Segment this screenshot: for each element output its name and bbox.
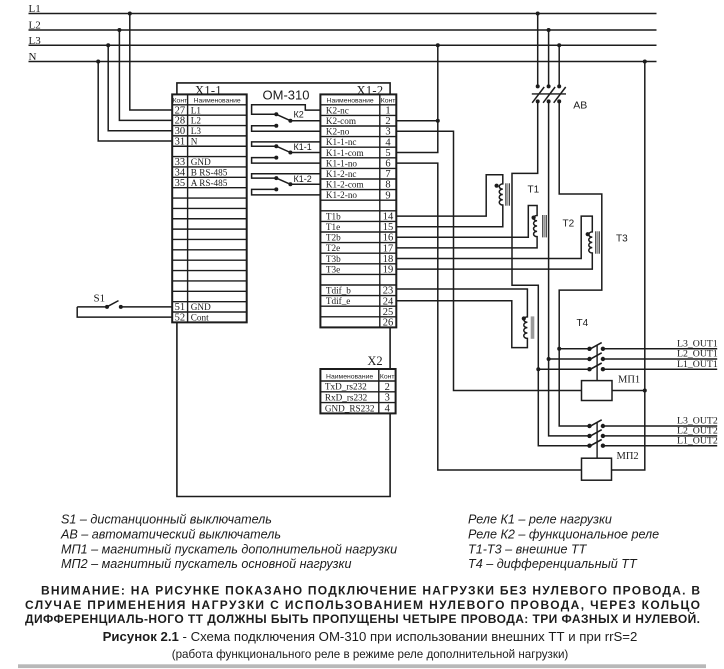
svg-text:L1_OUT2: L1_OUT2 [677,435,718,446]
svg-text:T1b: T1b [326,211,341,221]
svg-text:T3e: T3e [326,264,340,274]
svg-text:A RS-485: A RS-485 [191,178,228,188]
svg-text:TxD_rs232: TxD_rs232 [325,382,367,392]
svg-text:17: 17 [383,243,394,254]
contactor MP2 contacts [587,420,717,458]
svg-text:Рисунок 2.1 - Схема подключени: Рисунок 2.1 - Схема подключения ОМ-310 п… [103,629,638,644]
svg-text:Конт: Конт [381,97,396,104]
svg-text:7: 7 [385,169,390,180]
wire L2 rail to X1-1 [117,28,172,120]
svg-text:25: 25 [383,307,394,318]
svg-text:Т2: Т2 [563,219,575,230]
contactor coil MP2 [582,458,612,480]
svg-text:4: 4 [385,403,391,414]
svg-text:МП1: МП1 [618,374,640,385]
relay contact K1-2 [252,174,321,195]
svg-text:GND: GND [191,157,211,167]
svg-text:15: 15 [383,222,394,233]
svg-text:34: 34 [175,168,186,179]
svg-text:Реле К2 – функциональное реле: Реле К2 – функциональное реле [468,527,659,541]
wire phase L1 through breaker and CTs to contactors [512,12,590,446]
svg-text:4: 4 [385,137,391,148]
svg-text:Наименование: Наименование [326,374,373,381]
svg-text:L2: L2 [191,116,202,126]
current transformer T1 [396,175,509,227]
svg-text:X2: X2 [367,354,382,368]
svg-text:14: 14 [383,212,394,223]
svg-text:Т3: Т3 [616,234,628,245]
svg-text:GND_RS232: GND_RS232 [325,403,375,413]
svg-text:RxD_rs232: RxD_rs232 [325,393,368,403]
svg-text:8: 8 [385,180,390,191]
power rail L3 [29,35,657,47]
svg-text:K1-1-nc: K1-1-nc [326,137,357,147]
svg-text:L1: L1 [29,3,41,15]
svg-text:16: 16 [383,233,394,244]
svg-text:К2: К2 [294,109,304,119]
svg-text:2: 2 [385,116,390,127]
contactor MP1 contacts [587,343,717,381]
svg-text:S1: S1 [94,292,106,304]
svg-text:31: 31 [175,136,186,147]
svg-text:Т4 – дифференциальный ТТ: Т4 – дифференциальный ТТ [468,557,638,571]
legend text [60,513,659,572]
relay contact K2 [252,105,321,132]
svg-text:ВНИМАНИЕ: НА РИСУНКЕ ПОКАЗАНО: ВНИМАНИЕ: НА РИСУНКЕ ПОКАЗАНО ПОДКЛЮЧЕНИ… [41,584,700,598]
power rail N [29,51,657,63]
svg-text:GND: GND [191,302,211,312]
svg-text:35: 35 [175,178,186,189]
svg-text:X1-1: X1-1 [195,84,222,98]
switch S1 [77,301,172,318]
svg-text:28: 28 [175,116,186,127]
svg-text:L2: L2 [29,20,41,32]
svg-text:Конт: Конт [380,374,395,381]
warning paragraph [25,584,700,627]
svg-text:К1-1: К1-1 [294,142,312,152]
svg-text:5: 5 [385,148,390,159]
svg-text:Т4: Т4 [577,318,589,329]
relay contact K1-1 [252,142,321,163]
svg-text:K1-2-com: K1-2-com [326,180,364,190]
figure caption [103,629,638,661]
svg-text:2: 2 [385,382,390,393]
svg-text:T3b: T3b [326,254,341,264]
wire N rail to X1-1 [96,60,172,142]
svg-text:N: N [191,136,198,146]
svg-text:K2-com: K2-com [326,116,356,126]
svg-text:Наименование: Наименование [327,97,374,104]
svg-text:ДИФФЕРЕНЦИАЛЬ-НОГО ТТ ДОЛЖНЫ Б: ДИФФЕРЕНЦИАЛЬ-НОГО ТТ ДОЛЖНЫ БЫТЬ ПРОПУЩ… [25,611,700,626]
current transformer T3 [396,216,599,269]
differential current transformer T4 [396,289,534,348]
terminal block X1-1 [172,94,247,323]
svg-text:18: 18 [383,254,394,265]
svg-text:3: 3 [385,127,390,138]
svg-text:(работа функционального реле в: (работа функционального реле в режиме ре… [172,648,569,661]
svg-text:Cont: Cont [191,312,209,322]
svg-text:T2e: T2e [326,243,340,253]
terminal block X2 [320,369,395,414]
svg-text:3: 3 [385,393,390,404]
OM-310 enclosure outline [177,83,390,497]
svg-text:Т1-Т3 – внешние ТТ: Т1-Т3 – внешние ТТ [468,542,588,556]
svg-text:1: 1 [385,106,390,117]
svg-text:K1-1-com: K1-1-com [326,148,364,158]
svg-text:51: 51 [175,302,186,313]
svg-text:Наименование: Наименование [194,97,241,104]
svg-text:N: N [29,51,37,63]
svg-text:X1-2: X1-2 [357,84,384,98]
svg-text:МП1 – магнитный пускатель допо: МП1 – магнитный пускатель дополнительной… [61,542,397,556]
svg-text:S1 – дистанционный выключатель: S1 – дистанционный выключатель [61,513,272,527]
wire L3 rail to X1-1 [106,43,172,130]
svg-text:23: 23 [383,286,394,297]
svg-text:9: 9 [385,190,390,201]
svg-text:L1_OUT1: L1_OUT1 [677,359,718,370]
svg-text:26: 26 [383,318,394,329]
svg-text:L3: L3 [191,126,202,136]
svg-text:52: 52 [175,313,186,324]
power rail L1 [29,3,657,15]
wire L1 rail to X1-1 [128,12,172,110]
svg-text:K2-nc: K2-nc [326,105,349,115]
svg-text:МП2 – магнитный пускатель осно: МП2 – магнитный пускатель основной нагру… [61,557,351,571]
wire phase L3 through breaker and CTs to contactors [557,43,602,426]
circuit breaker AB [532,84,566,103]
svg-text:B RS-485: B RS-485 [191,167,228,177]
svg-text:6: 6 [385,159,390,170]
svg-text:27: 27 [175,105,186,116]
svg-text:ОМ-310: ОМ-310 [263,87,310,102]
svg-text:L1: L1 [191,105,202,115]
wire phase L2 through breaker and CTs to contactors [547,28,590,436]
svg-text:Конт: Конт [173,97,188,104]
svg-text:K1-1-no: K1-1-no [326,158,358,168]
svg-text:30: 30 [175,126,186,137]
svg-text:Tdif_e: Tdif_e [326,296,351,306]
svg-text:Т1: Т1 [528,185,540,196]
svg-text:L3: L3 [29,35,42,47]
svg-text:T2b: T2b [326,233,341,243]
contactor coil MP1 [582,381,613,401]
svg-text:T1e: T1e [326,222,340,232]
power rail L2 [29,20,657,32]
svg-text:К1-2: К1-2 [294,174,312,184]
svg-text:K1-2-nc: K1-2-nc [326,169,357,179]
current transformer T2 [396,206,546,248]
svg-text:33: 33 [175,157,186,168]
cut-off text band at page bottom [18,664,706,668]
wire N to contactor coils [612,60,647,471]
svg-text:Tdif_b: Tdif_b [326,286,351,296]
wire K1-1-no to MP2 coil [396,163,581,470]
svg-text:24: 24 [383,296,394,307]
svg-text:МП2: МП2 [617,451,639,462]
svg-text:K2-no: K2-no [326,127,350,137]
svg-text:АВ – автоматический выключател: АВ – автоматический выключатель [60,527,281,541]
svg-text:19: 19 [383,265,394,276]
wire L3 bus to K2-com and K1-1-com [396,43,440,152]
svg-text:Реле К1 – реле нагрузки: Реле К1 – реле нагрузки [468,513,612,527]
terminal block X1-2 [320,94,396,328]
svg-text:АВ: АВ [573,100,587,112]
wire K2-no to MP1 coil [396,131,581,390]
svg-text:K1-2-no: K1-2-no [326,190,358,200]
